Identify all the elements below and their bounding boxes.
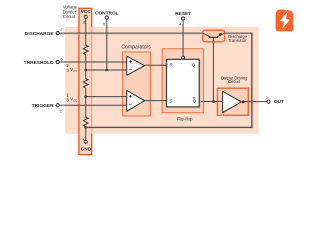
voltage divider strip right border (pale inside IC body) <box>91 27 93 134</box>
logo CircuitBread bread slice with lightning bolt <box>276 9 294 31</box>
junction: divider bottom on ground bus <box>84 126 87 129</box>
flip-flop reset bubble <box>182 56 185 59</box>
wire: divider bottom to GND pin 1 <box>85 127 87 140</box>
transistor Q1 base bar <box>209 36 218 38</box>
svg-text:Transistor: Transistor <box>228 38 247 43</box>
terminal GND pin 1 <box>84 140 87 143</box>
junction: control joins 2/3 Vcc wire <box>105 69 108 72</box>
transistor Q1 emitter lead <box>217 33 225 37</box>
flip-flop group box <box>162 49 203 113</box>
svg-text:6: 6 <box>60 57 62 61</box>
voltage divider strip top border <box>78 7 92 9</box>
wire: output buffer to OUT pin 3 <box>244 101 267 103</box>
resistor R2 <box>83 79 88 89</box>
svg-text:Comparators: Comparators <box>121 45 151 51</box>
svg-text:OUT: OUT <box>274 99 284 105</box>
svg-text:8: 8 <box>83 20 85 24</box>
op-amp U2 plus sign <box>129 95 132 97</box>
wire: CONTROL pin 5 down to 2/3 Vcc node <box>106 18 108 71</box>
terminal THRESHOLD pin 6 <box>56 60 59 63</box>
output driving circuit box <box>217 88 248 115</box>
terminal DISCHARGE pin 7 <box>56 31 59 34</box>
voltage divider strip right border top segment <box>91 8 93 27</box>
output buffer U4 <box>223 91 242 112</box>
transistor Q1 collector lead <box>203 33 211 37</box>
voltage divider strip right border bottom segment <box>91 134 93 155</box>
resistor R3 <box>83 117 88 127</box>
shadow under top bus <box>60 33 252 35</box>
svg-text:Q: Q <box>193 99 197 104</box>
svg-text:4: 4 <box>179 22 181 26</box>
wire: R1 to 2/3 Vcc tap <box>85 55 87 79</box>
wire: comparator 2 output to flip-flop S input <box>144 100 166 102</box>
wire: right edge vertical (emitter to ground bus) <box>251 33 253 128</box>
wire: transistor base down to Qbar wire <box>212 42 214 102</box>
shadow under ground bus <box>87 127 253 129</box>
IC body background <box>65 27 258 134</box>
op-amp U1 minus sign <box>129 69 132 71</box>
wire: 1/3 Vcc tap to comparator 2 + input <box>86 96 128 98</box>
terminal TRIGGER pin 2 <box>56 104 59 107</box>
svg-text:1: 1 <box>82 137 84 141</box>
wire: VCC pin 8 down to divider R1 <box>85 18 87 45</box>
terminal OUT pin 3 <box>267 100 270 103</box>
wire: transistor emitter to right edge <box>225 32 253 34</box>
svg-text:TRIGGER: TRIGGER <box>32 103 54 109</box>
comparators group box <box>123 52 151 116</box>
shadow right of right edge <box>252 34 254 128</box>
svg-text:Flip-flop: Flip-flop <box>177 117 193 122</box>
wire: ground bus bottom <box>86 126 253 128</box>
op-amp U2 trigger comparator <box>127 90 145 111</box>
logo lightning bolt <box>280 12 290 29</box>
svg-text:VCC: VCC <box>81 9 91 14</box>
transistor Q1 emitter arrow <box>218 33 222 36</box>
op-amp U1 plus sign <box>129 61 132 63</box>
svg-text:3: 3 <box>266 96 268 100</box>
voltage divider circuit strip box <box>79 8 92 154</box>
junction: base wire on Qbar wire <box>212 100 215 103</box>
wire: TRIGGER pin 2 to comparator 2 - input <box>59 104 127 106</box>
voltage divider strip left border <box>78 8 80 154</box>
svg-text:5: 5 <box>103 22 105 26</box>
wire: 2/3 Vcc tap to comparator 1 - input <box>86 69 128 71</box>
svg-text:S: S <box>169 99 172 104</box>
wire: THRESHOLD pin 6 to comparator 1 + input <box>59 61 127 63</box>
wire: flip-flop Qbar output to output buffer input <box>199 101 222 103</box>
junction: 1/3 Vcc tap on divider <box>84 95 87 98</box>
output buffer inverting bubble <box>242 101 245 104</box>
flip-flop Qbar overbar <box>193 97 196 99</box>
wire: RESET pin 4 down to flip-flop reset bubble <box>182 19 184 57</box>
svg-text:2: 2 <box>60 109 62 113</box>
op-amp U2 minus sign <box>129 103 132 105</box>
svg-text:7: 7 <box>60 28 62 32</box>
svg-text:RESET: RESET <box>175 11 191 17</box>
resistor R1 <box>83 45 88 55</box>
flip-flop box shadow <box>167 60 200 108</box>
svg-text:DISCHARGE: DISCHARGE <box>25 31 55 37</box>
discharge transistor box <box>203 30 225 42</box>
voltage divider strip bottom border <box>78 154 92 156</box>
svg-text:THRESHOLD: THRESHOLD <box>24 60 54 66</box>
wire: comparator 1 output to flip-flop R input <box>144 64 166 66</box>
svg-text:Circuit: Circuit <box>228 79 241 84</box>
svg-text:Q: Q <box>192 63 196 68</box>
svg-text:Circuit: Circuit <box>63 14 76 19</box>
terminal VCC pin 8 <box>80 9 91 16</box>
junction: 2/3 Vcc tap on divider <box>84 69 87 72</box>
flip-flop U3 body <box>167 59 200 107</box>
svg-text:GND: GND <box>81 147 92 152</box>
op-amp U1 threshold comparator <box>127 56 145 75</box>
transistor Q1 base lead <box>212 37 214 42</box>
wire: DISCHARGE pin 7 to discharge transistor collector (top bus) <box>59 32 203 34</box>
wire: R2 to 1/3 Vcc tap and R3 <box>85 88 87 117</box>
